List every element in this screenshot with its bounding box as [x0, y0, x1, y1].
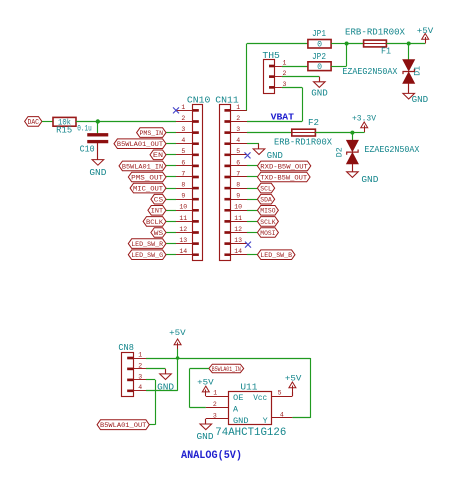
- svg-text:8: 8: [236, 182, 240, 189]
- connector CN10 name: [187, 95, 211, 105]
- wire C10 to ground: [97, 143, 99, 160]
- CN10 pin 2: [176, 115, 199, 123]
- supply label +5V: [197, 377, 214, 387]
- CN11 pin 2: [225, 115, 247, 123]
- wire CN8 pin 1 to U11 Y: [146, 358, 311, 418]
- CN10 pin 8: [176, 182, 199, 190]
- net flag BCLK: [143, 217, 166, 227]
- svg-text:CN10: CN10: [187, 95, 211, 105]
- net flag B5WLA01_IN: [119, 161, 166, 171]
- wire CN11 pin 12 to MOSI: [247, 232, 257, 234]
- svg-text:GND: GND: [412, 95, 429, 105]
- svg-text:1: 1: [138, 351, 142, 358]
- TVS diode D2: [347, 140, 358, 163]
- capacitor C1 (C10) plates: [88, 133, 109, 143]
- net flag SCLK: [257, 217, 278, 227]
- wire PMS_OUT to CN10 pin 7: [166, 176, 176, 178]
- wire WS to CN10 pin 12: [166, 232, 176, 234]
- junction node R15/C10: [96, 119, 100, 123]
- wire EN to CN10 pin 5: [166, 154, 176, 156]
- wire CN11 pin 3 to F2: [247, 132, 292, 134]
- CN11 pin 13: [225, 237, 247, 245]
- svg-text:4: 4: [181, 137, 185, 144]
- svg-text:+5V: +5V: [197, 377, 214, 387]
- svg-text:4: 4: [138, 384, 142, 391]
- jumper resistor JP1 name: [312, 29, 326, 39]
- svg-text:LED_SW_R: LED_SW_R: [131, 241, 163, 249]
- svg-text:1: 1: [213, 390, 217, 397]
- svg-text:1: 1: [282, 59, 286, 66]
- ground symbol at U11 pin 3: [200, 424, 212, 430]
- wire CN11 pin 8 to SCL: [247, 188, 257, 190]
- svg-text:Vcc: Vcc: [253, 393, 267, 403]
- svg-text:4: 4: [280, 411, 284, 418]
- TVS diode D1: [403, 60, 414, 83]
- ground label GND: [197, 432, 214, 442]
- wire CN11 pin 11 to SCLK: [247, 221, 257, 223]
- net flag SCL: [257, 183, 274, 193]
- fuse F1 name: [381, 46, 391, 56]
- svg-text:0: 0: [317, 63, 322, 72]
- CN10 pin 4: [176, 137, 199, 145]
- svg-text:RXD-B5W_OUT: RXD-B5W_OUT: [260, 163, 308, 171]
- svg-text:SCLK: SCLK: [260, 219, 276, 227]
- wire junction to +3.3V: [352, 131, 364, 134]
- ground symbol below D2: [347, 172, 359, 178]
- svg-text:8: 8: [181, 182, 185, 189]
- name label C10: [80, 145, 95, 155]
- svg-text:D1: D1: [414, 66, 423, 76]
- CN11 pin 6: [225, 159, 247, 167]
- resistor R1 (R15) body: [53, 117, 76, 126]
- wire D2 to ground: [352, 164, 354, 172]
- svg-text:5: 5: [236, 148, 240, 155]
- value label 0.1u: [77, 124, 92, 133]
- ground label GND: [267, 151, 283, 161]
- net flag RXD-B5W_OUT: [257, 161, 310, 171]
- svg-text:5: 5: [278, 390, 282, 397]
- net flag LED_SW_B: [257, 250, 295, 260]
- wire TH5 pin 1 to JP2: [282, 66, 308, 68]
- CN11 pin 9: [225, 193, 247, 201]
- connector CN8 name: [118, 343, 133, 353]
- svg-text:4: 4: [236, 137, 240, 144]
- net flag PMS_IN: [137, 128, 166, 138]
- svg-text:TXD-B5W_OUT: TXD-B5W_OUT: [260, 174, 307, 182]
- CN11 pin 7: [225, 170, 247, 178]
- value label EZAEG2N50AX (D1): [342, 66, 397, 77]
- svg-text:+5V: +5V: [285, 373, 302, 383]
- wire LED_SW_R to CN10 pin 13: [166, 243, 176, 245]
- svg-text:GND: GND: [267, 151, 283, 161]
- svg-text:SDA: SDA: [260, 197, 272, 205]
- U11 pin name GND: [233, 416, 249, 426]
- wire D1 to ground: [408, 83, 410, 93]
- fuse F2 body: [292, 129, 316, 136]
- U11 pin name A: [233, 404, 239, 414]
- wire +5V to CN8 pin 4: [146, 349, 178, 391]
- svg-text:JP1: JP1: [312, 29, 326, 39]
- U11 pin name Vcc: [253, 393, 267, 403]
- U11 pin name Y: [263, 416, 268, 426]
- wire CN8 pin 3 to B5WLA01_OUT: [146, 380, 156, 425]
- no-connect X on CN10 pin 1: [173, 107, 179, 113]
- svg-text:Y: Y: [263, 416, 268, 426]
- value label 10k: [58, 119, 71, 128]
- net flag MOSI: [257, 228, 278, 238]
- CN11 pin 11: [225, 215, 247, 223]
- CN10 pin 3: [176, 126, 199, 134]
- wire JP1 to junction: [331, 43, 347, 45]
- connector CN10 body: [193, 105, 203, 261]
- svg-text:GND: GND: [361, 175, 378, 185]
- net flag B5WLA01_IN: [209, 364, 244, 373]
- supply +5V symbol at U11 pin 5: [289, 382, 296, 392]
- svg-text:11: 11: [179, 215, 187, 222]
- svg-text:F2: F2: [308, 118, 319, 128]
- CN10 pin 7: [176, 170, 199, 178]
- wire junction to F1: [347, 43, 364, 45]
- svg-text:12: 12: [179, 226, 187, 233]
- net flag MIC_OUT: [130, 183, 166, 193]
- svg-text:+5V: +5V: [169, 328, 186, 338]
- svg-text:6: 6: [181, 159, 185, 166]
- value label 74AHCT1G126: [215, 427, 286, 439]
- CN11 pin 3: [225, 126, 247, 134]
- svg-text:9: 9: [181, 193, 185, 200]
- wire B5WLA01_IN to U11 A: [190, 369, 209, 408]
- wire CS to CN10 pin 9: [166, 199, 176, 201]
- wire U11 pin 5 to +5V: [292, 392, 294, 396]
- svg-text:PMS_OUT: PMS_OUT: [131, 174, 163, 182]
- supply label +3.3V: [352, 113, 377, 123]
- ground label GND: [89, 168, 106, 178]
- wire B5WLA01_OUT to CN10 pin 4: [166, 143, 176, 145]
- net flag LED_SW_G: [128, 250, 166, 260]
- wire INT to CN10 pin 10: [166, 210, 176, 212]
- net flag EN: [150, 150, 166, 160]
- name label D1: [414, 66, 423, 76]
- wire LED_SW_G to CN10 pin 14: [166, 254, 176, 256]
- net flag LED_SW_R: [128, 239, 166, 249]
- connector CN11 body: [220, 105, 231, 261]
- name label D2: [336, 147, 345, 157]
- ground symbol at CN11 pin 4: [253, 149, 265, 155]
- TH5 pin 2: [269, 70, 286, 78]
- svg-text:6: 6: [236, 159, 240, 166]
- wire F2 to junction: [315, 132, 352, 134]
- svg-text:BCLK: BCLK: [146, 219, 164, 227]
- supply label +5V: [285, 373, 302, 383]
- svg-text:B5WLA01_IN: B5WLA01_IN: [212, 366, 241, 373]
- ground symbol below C10: [92, 160, 104, 166]
- connector TH5 name: [262, 51, 280, 61]
- U11 pin 1: [206, 390, 228, 397]
- svg-text:F1: F1: [381, 46, 391, 56]
- CN10 pin 9: [176, 193, 199, 201]
- wire TH5 pin 2 to ground: [282, 77, 320, 82]
- wire junction to D1: [408, 44, 410, 60]
- wire R15 to CN10 pin 2: [76, 121, 176, 123]
- wire B5WLA01_IN to CN10 pin 6: [166, 165, 176, 167]
- jumper resistor JP1 body: [308, 40, 331, 49]
- CN10 pin 14: [176, 248, 199, 256]
- wire JP2 to junction: [331, 44, 347, 67]
- wire junction to +5V: [409, 43, 426, 45]
- svg-text:13: 13: [234, 237, 242, 244]
- supply +3.3V symbol: [361, 122, 368, 132]
- ground symbol at TH5 pin 2: [314, 82, 326, 88]
- wire junction to D2: [352, 133, 354, 141]
- supply +5V symbol at U11 pin 1: [202, 386, 209, 396]
- svg-text:CS: CS: [154, 197, 163, 205]
- svg-text:A: A: [233, 404, 239, 414]
- svg-text:3: 3: [181, 126, 185, 133]
- net flag B5WLA01_OUT: [97, 420, 149, 430]
- net flag TXD-B5W_OUT: [257, 172, 310, 182]
- CN8 pin 2: [127, 362, 146, 370]
- svg-text:3: 3: [138, 373, 142, 380]
- net name VBAT: [271, 111, 295, 122]
- svg-text:3: 3: [236, 126, 240, 133]
- wire junction to C10: [97, 122, 99, 134]
- svg-text:5: 5: [181, 148, 185, 155]
- name label R15: [56, 126, 72, 136]
- CN10 pin 5: [176, 148, 199, 156]
- wire PMS_IN to CN10 pin 3: [166, 132, 176, 134]
- svg-text:LED_SW_B: LED_SW_B: [260, 252, 292, 260]
- junction node F1/D1/+5V: [407, 42, 411, 46]
- CN8 pin 4: [127, 384, 146, 392]
- U11 pin 5: [271, 390, 292, 397]
- svg-text:GND: GND: [89, 168, 106, 178]
- wire CN11 pin 10 to MISO: [247, 210, 257, 212]
- net name ANALOG(5V): [181, 450, 242, 462]
- wire CN11 pin 14 to LED_SW_B: [247, 254, 257, 256]
- svg-text:EN: EN: [153, 152, 163, 160]
- svg-text:10: 10: [179, 204, 187, 211]
- svg-text:0.1u: 0.1u: [77, 124, 92, 133]
- U11 pin name OE: [233, 393, 244, 403]
- ground label GND: [311, 89, 328, 99]
- svg-text:INT: INT: [151, 208, 163, 216]
- value label 0 (JP1): [317, 40, 322, 49]
- ground label GND: [412, 95, 429, 105]
- svg-text:11: 11: [234, 215, 242, 222]
- svg-text:GND: GND: [311, 89, 328, 99]
- svg-text:PMS_IN: PMS_IN: [140, 130, 164, 138]
- CN8 pin 1: [127, 351, 146, 359]
- svg-text:GND: GND: [157, 382, 174, 392]
- connector CN8 body: [122, 353, 134, 397]
- CN10 pin 10: [176, 204, 199, 212]
- no-connect X on CN11 pin 5: [245, 152, 251, 158]
- svg-text:VBAT: VBAT: [271, 111, 295, 122]
- svg-text:EZAEG2N50AX: EZAEG2N50AX: [342, 66, 397, 77]
- TH5 pin 1: [269, 59, 286, 67]
- CN11 pin 1: [225, 104, 247, 112]
- U11 pin 2: [206, 401, 228, 408]
- supply +5V symbol (CN8): [174, 339, 181, 349]
- CN11 pin 4: [225, 137, 247, 145]
- wire CN11 pin 9 to SDA: [247, 199, 257, 201]
- svg-text:ANALOG(5V): ANALOG(5V): [181, 450, 242, 462]
- svg-text:B5WLA01_OUT: B5WLA01_OUT: [117, 141, 163, 149]
- net flag SDA: [257, 194, 274, 204]
- svg-text:MISO: MISO: [260, 208, 275, 216]
- wire CN8 pin 2 to ground: [146, 369, 166, 374]
- net flag B5WLA01_OUT: [114, 139, 166, 149]
- wire F1 to junction: [386, 43, 408, 45]
- svg-text:3: 3: [282, 81, 286, 88]
- svg-text:74AHCT1G126: 74AHCT1G126: [215, 427, 286, 439]
- svg-text:13: 13: [179, 237, 187, 244]
- no-connect X on CN11 pin 13: [245, 242, 251, 248]
- fuse F1 body: [364, 40, 387, 47]
- svg-text:14: 14: [179, 248, 187, 255]
- svg-text:GND: GND: [197, 432, 214, 442]
- svg-text:EZAEG2N50AX: EZAEG2N50AX: [364, 144, 419, 155]
- CN10 pin 6: [176, 159, 199, 167]
- svg-text:MIC_OUT: MIC_OUT: [133, 186, 163, 194]
- wire CN11 pin 1 to JP1: [247, 44, 308, 111]
- connector TH5 body: [264, 60, 275, 94]
- svg-text:C10: C10: [80, 145, 95, 155]
- svg-text:JP2: JP2: [312, 52, 326, 62]
- svg-text:OE: OE: [233, 393, 244, 403]
- svg-text:+3.3V: +3.3V: [352, 113, 377, 123]
- value label ERB-RD1R00X (F2): [274, 136, 332, 147]
- svg-text:10: 10: [234, 204, 242, 211]
- svg-text:1: 1: [181, 104, 185, 111]
- wire CN11 pin 7 to TXD-B5W_OUT: [247, 176, 257, 178]
- net flag MISO: [257, 206, 278, 216]
- wire DAC to R15: [42, 121, 53, 123]
- svg-text:1: 1: [236, 104, 240, 111]
- svg-text:DAC: DAC: [28, 119, 40, 127]
- CN8 pin 3: [127, 373, 146, 381]
- net flag CS: [151, 194, 166, 204]
- TH5 pin 3: [269, 81, 286, 89]
- wire CN11 pin 6 to RXD-B5W_OUT: [247, 165, 257, 167]
- svg-text:2: 2: [213, 401, 217, 408]
- ground symbol below D1: [403, 93, 415, 99]
- CN10 pin 11: [176, 215, 199, 223]
- wire CN11 pin 4 to ground: [247, 144, 259, 149]
- IC U11 body: [229, 392, 272, 425]
- value label EZAEG2N50AX (D2): [364, 144, 419, 155]
- CN11 pin 14: [225, 248, 247, 256]
- junction node +5V at CN8 pin 1 wire: [176, 356, 180, 360]
- jumper resistor JP2 body: [308, 62, 331, 71]
- net flag WS: [151, 228, 166, 238]
- svg-text:7: 7: [236, 170, 240, 177]
- CN10 pin 13: [176, 237, 199, 245]
- CN10 pin 12: [176, 226, 199, 234]
- svg-text:ERB-RD1R00X: ERB-RD1R00X: [345, 26, 405, 37]
- value label 0 (JP2): [317, 63, 322, 72]
- svg-text:3: 3: [213, 412, 217, 419]
- CN11 pin 12: [225, 226, 247, 234]
- net flag PMS_OUT: [128, 172, 166, 182]
- supply label +5V: [169, 328, 186, 338]
- svg-text:B5WLA01_IN: B5WLA01_IN: [122, 163, 163, 171]
- svg-text:B5WLA01_OUT: B5WLA01_OUT: [100, 422, 146, 430]
- jumper resistor JP2 name: [312, 52, 326, 62]
- supply +5V symbol (top right): [422, 34, 429, 44]
- value label ERB-RD1R00X (F1): [345, 26, 405, 37]
- connector CN11 name: [215, 95, 239, 105]
- ground label GND: [361, 175, 378, 185]
- svg-text:7: 7: [181, 170, 185, 177]
- CN11 pin 5: [225, 148, 247, 156]
- svg-text:+5V: +5V: [417, 26, 434, 36]
- ground label GND: [157, 382, 174, 392]
- CN11 pin 8: [225, 182, 247, 190]
- svg-text:CN8: CN8: [118, 343, 133, 353]
- wire BCLK to CN10 pin 11: [166, 221, 176, 223]
- net flag INT: [148, 206, 166, 216]
- svg-text:D2: D2: [336, 147, 345, 157]
- wire U11 pin 3 to ground: [205, 419, 207, 424]
- CN11 pin 10: [225, 204, 247, 212]
- IC U11 name: [240, 382, 257, 393]
- svg-text:0: 0: [317, 40, 322, 49]
- svg-text:WS: WS: [154, 230, 163, 238]
- svg-text:R15: R15: [56, 126, 72, 136]
- wire MIC_OUT to CN10 pin 8: [166, 188, 176, 190]
- svg-text:2: 2: [138, 362, 142, 369]
- svg-text:2: 2: [181, 115, 185, 122]
- junction node JP1/JP2/F1: [345, 42, 349, 46]
- junction node F2/D2/+3.3V: [350, 131, 354, 135]
- supply label +5V: [417, 26, 434, 36]
- svg-text:2: 2: [236, 115, 240, 122]
- svg-text:ERB-RD1R00X: ERB-RD1R00X: [274, 136, 332, 147]
- U11 pin 4: [271, 411, 292, 418]
- wire VBAT: CN11 pin 2 to TH5 pin 3: [247, 87, 303, 121]
- svg-text:12: 12: [234, 226, 242, 233]
- svg-text:GND: GND: [233, 416, 249, 426]
- U11 pin 3: [206, 412, 228, 419]
- fuse F2 name: [308, 118, 319, 128]
- svg-text:9: 9: [236, 193, 240, 200]
- net flag DAC: [25, 117, 42, 127]
- ground symbol at CN8 pin 2: [160, 374, 172, 380]
- svg-text:MOSI: MOSI: [260, 230, 275, 238]
- CN10 pin 1: [176, 104, 199, 112]
- svg-text:SCL: SCL: [260, 186, 272, 194]
- svg-text:LED_SW_G: LED_SW_G: [131, 252, 163, 260]
- svg-text:14: 14: [234, 248, 242, 255]
- wire U11 pin 4 (Y) to CN8 pin 1 riser: [292, 417, 310, 419]
